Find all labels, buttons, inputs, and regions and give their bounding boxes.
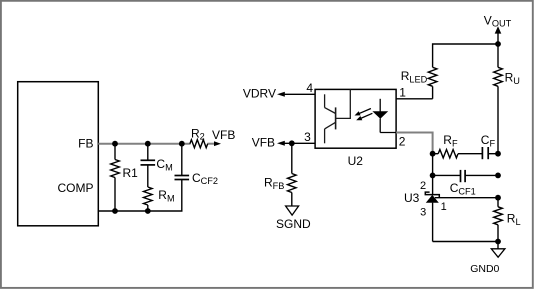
svg-text:FB: FB	[78, 136, 93, 150]
node junction RM bottom	[145, 208, 151, 214]
wire pin4 to VDRV	[281, 93, 315, 95]
arrow VFB output	[214, 141, 221, 146]
svg-text:GND0: GND0	[470, 263, 499, 275]
wire bottom net	[433, 241, 498, 243]
node junction RF left	[430, 151, 436, 157]
svg-text:R1: R1	[123, 166, 139, 180]
svg-text:2: 2	[399, 135, 406, 149]
arrow VOUT up	[495, 26, 502, 33]
node junction CCF2 top	[179, 141, 185, 147]
node junction RFB top	[289, 140, 295, 146]
ground GND0 symbol	[497, 242, 499, 249]
svg-text:VDRV: VDRV	[243, 86, 276, 100]
resistor RFB	[288, 143, 297, 206]
light arrow 1	[355, 109, 371, 116]
svg-text:4: 4	[306, 81, 313, 95]
capacitor CCF1	[433, 170, 498, 182]
svg-text:VFB: VFB	[212, 128, 235, 142]
wire VOUT top	[433, 33, 498, 67]
capacitor CCF2	[175, 144, 190, 180]
U3 ref wire	[435, 197, 498, 199]
resistor R1	[111, 144, 120, 211]
LED inside U2	[372, 99, 396, 133]
wire pin2 (gray)	[396, 133, 433, 153]
capacitor CM	[141, 144, 156, 187]
svg-text:VFB: VFB	[252, 136, 275, 150]
phototransistor inside U2	[325, 89, 351, 143]
resistor RF	[433, 150, 483, 158]
resistor RLED	[428, 67, 437, 99]
optocoupler U2 box	[315, 89, 396, 148]
svg-text:COMP: COMP	[58, 181, 94, 195]
node junction CCF1 left	[430, 173, 436, 179]
wire pin3 to VFB	[281, 142, 315, 144]
wire COMP bottom net	[98, 180, 182, 212]
svg-text:3: 3	[304, 130, 311, 144]
node junction VOUT	[495, 41, 501, 47]
wire FB net (gray horizontal)	[98, 143, 190, 145]
node junction GND0	[495, 239, 501, 245]
capacitor CF	[482, 147, 498, 159]
svg-text:2: 2	[420, 180, 426, 192]
wire pin1	[396, 98, 433, 100]
node junction CCF1 right	[495, 173, 501, 179]
resistor R2	[190, 140, 208, 148]
arrow VFB opto	[277, 141, 285, 146]
wire left column pin2 node to CCF1	[432, 154, 434, 176]
resistor RM	[144, 187, 153, 211]
arrow VDRV	[277, 92, 285, 97]
svg-text:U2: U2	[348, 154, 364, 168]
node junction CF right	[495, 151, 501, 157]
wire R2 to VFB arrow	[207, 143, 215, 145]
svg-text:3: 3	[420, 207, 426, 219]
shunt regulator U3	[425, 175, 439, 241]
node junction R1 top	[112, 141, 118, 147]
svg-text:U3: U3	[404, 191, 420, 205]
svg-text:1: 1	[441, 201, 447, 213]
svg-text:SGND: SGND	[276, 217, 311, 231]
svg-text:1: 1	[399, 85, 406, 99]
node junction R1 bottom	[112, 208, 118, 214]
light arrow 2	[356, 113, 372, 120]
ground SGND symbol	[286, 206, 299, 215]
node junction CM top	[145, 141, 151, 147]
resistor RL	[494, 198, 503, 242]
resistor RU	[494, 44, 503, 154]
node junction U3 ref	[495, 195, 501, 201]
IC block (FB/COMP device)	[18, 82, 99, 226]
